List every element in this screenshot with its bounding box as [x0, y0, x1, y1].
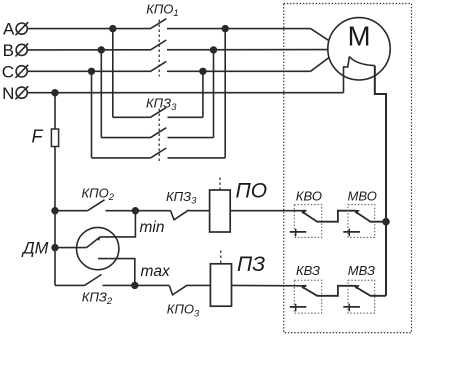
- contactor KPZ3 row2 wire: [101, 137, 150, 139]
- contactor KPO1 contact A: [151, 27, 167, 30]
- contactor KPZ3 row1 blade: [151, 107, 167, 117]
- KVO actuator mark: [290, 231, 307, 233]
- DM min contact wire: [100, 211, 135, 237]
- fuse F: [51, 129, 58, 147]
- contactor KPO1 contact B: [151, 48, 167, 51]
- node A-right: [222, 26, 228, 32]
- KPZ3 mechanical link (dashed): [158, 109, 160, 164]
- MVO actuator mark: [343, 231, 360, 233]
- svg-text:МВО: МВО: [348, 188, 377, 203]
- wire PZ to KVZ: [232, 284, 303, 286]
- node C-right: [200, 68, 206, 74]
- actuator pedestal right / wire to bus: [375, 66, 386, 296]
- limit switch MVZ box: [348, 280, 375, 313]
- contactor KPZ3 row3 wire: [92, 157, 151, 159]
- motor M: [328, 18, 390, 80]
- svg-text:min: min: [140, 219, 165, 236]
- KPO1 mechanical link (dashed): [158, 20, 160, 77]
- node MVO output: [383, 219, 389, 225]
- limit switch MVO box: [348, 205, 375, 238]
- contactor KPZ3 row1 wire: [113, 116, 151, 118]
- node KPO2-left: [52, 208, 58, 214]
- node min junction: [133, 208, 139, 214]
- svg-text:M: M: [348, 20, 371, 51]
- wire A tap down: [112, 29, 114, 118]
- wire phase N: [27, 92, 343, 94]
- wire C tap down: [91, 71, 93, 158]
- node N-fuse: [52, 90, 58, 96]
- contactor KPZ3 row3 blade: [151, 148, 167, 158]
- contact KPZ3-aux: [171, 210, 189, 220]
- limit switch KVZ box: [294, 280, 321, 313]
- actuator dashed enclosure: [284, 4, 412, 333]
- wire PO branch: [55, 210, 88, 212]
- wire B tap down: [100, 50, 102, 138]
- node B-right: [211, 47, 217, 53]
- PZ coil link stub (dashed): [220, 251, 222, 264]
- DM needle: [87, 237, 101, 248]
- svg-text:ПО: ПО: [236, 180, 268, 203]
- svg-text:КПО2: КПО2: [82, 185, 115, 203]
- svg-text:A: A: [3, 19, 15, 38]
- pressure sensor DM: [77, 227, 119, 269]
- limit switch MVO blade: [354, 210, 360, 214]
- svg-text:КВЗ: КВЗ: [296, 263, 320, 278]
- wire PZ branch: [55, 284, 85, 286]
- terminal A: [3, 19, 28, 38]
- actuator pedestal left: [344, 57, 350, 93]
- svg-text:КПЗ3: КПЗ3: [146, 95, 177, 113]
- node A-left: [110, 26, 116, 32]
- contactor KPZ3 row2 blade: [151, 128, 167, 138]
- svg-text:КПЗ2: КПЗ2: [82, 289, 113, 307]
- wire B-right tap down: [213, 50, 215, 138]
- terminal B: [3, 41, 29, 60]
- wire phase B: [27, 49, 328, 51]
- limit switch KVO blade: [302, 210, 306, 212]
- svg-text:КПО1: КПО1: [146, 2, 179, 19]
- svg-text:КПЗ3: КПЗ3: [166, 189, 197, 207]
- DM max contact wire: [98, 259, 135, 286]
- svg-text:ДМ: ДМ: [21, 239, 49, 257]
- node C-left: [89, 68, 95, 74]
- wire phase C: [27, 70, 310, 72]
- relay coil PZ: [210, 264, 231, 306]
- limit switch KVO box: [294, 205, 321, 238]
- node B-left: [98, 47, 104, 53]
- wire A-right tap down: [224, 29, 226, 158]
- svg-text:КПО3: КПО3: [167, 302, 200, 320]
- MVZ actuator mark: [343, 306, 360, 308]
- svg-text:N: N: [2, 84, 14, 103]
- wire DM input: [55, 247, 87, 249]
- terminal N: [2, 84, 28, 103]
- terminal C: [2, 62, 29, 81]
- contact KPO2: [88, 200, 105, 211]
- wire C-right tap down: [202, 71, 204, 117]
- svg-text:МВЗ: МВЗ: [348, 263, 375, 278]
- contact KPO3: [169, 285, 187, 295]
- svg-text:max: max: [141, 263, 172, 280]
- wire phase C motor lead: [311, 57, 330, 71]
- svg-text:C: C: [2, 62, 14, 81]
- contactor KPO1 contact C: [151, 70, 167, 73]
- node max junction: [132, 283, 138, 289]
- svg-text:B: B: [3, 41, 14, 60]
- wire PO to KVO: [230, 210, 302, 212]
- contact KPZ2: [85, 275, 102, 286]
- svg-text:КВО: КВО: [296, 188, 322, 203]
- KVZ actuator mark: [290, 306, 307, 308]
- actuator flag: [349, 57, 375, 66]
- wire phase A motor lead: [311, 29, 330, 41]
- wire phase A: [27, 28, 310, 30]
- svg-text:F: F: [32, 127, 44, 147]
- svg-text:ПЗ: ПЗ: [237, 253, 265, 276]
- wire left bus vertical: [54, 93, 56, 286]
- node DM input: [52, 245, 58, 251]
- PO coil link stub (dashed): [219, 178, 221, 191]
- limit switch KVZ blade: [302, 285, 306, 287]
- limit switch MVZ blade: [354, 285, 360, 289]
- relay coil PO: [210, 190, 231, 232]
